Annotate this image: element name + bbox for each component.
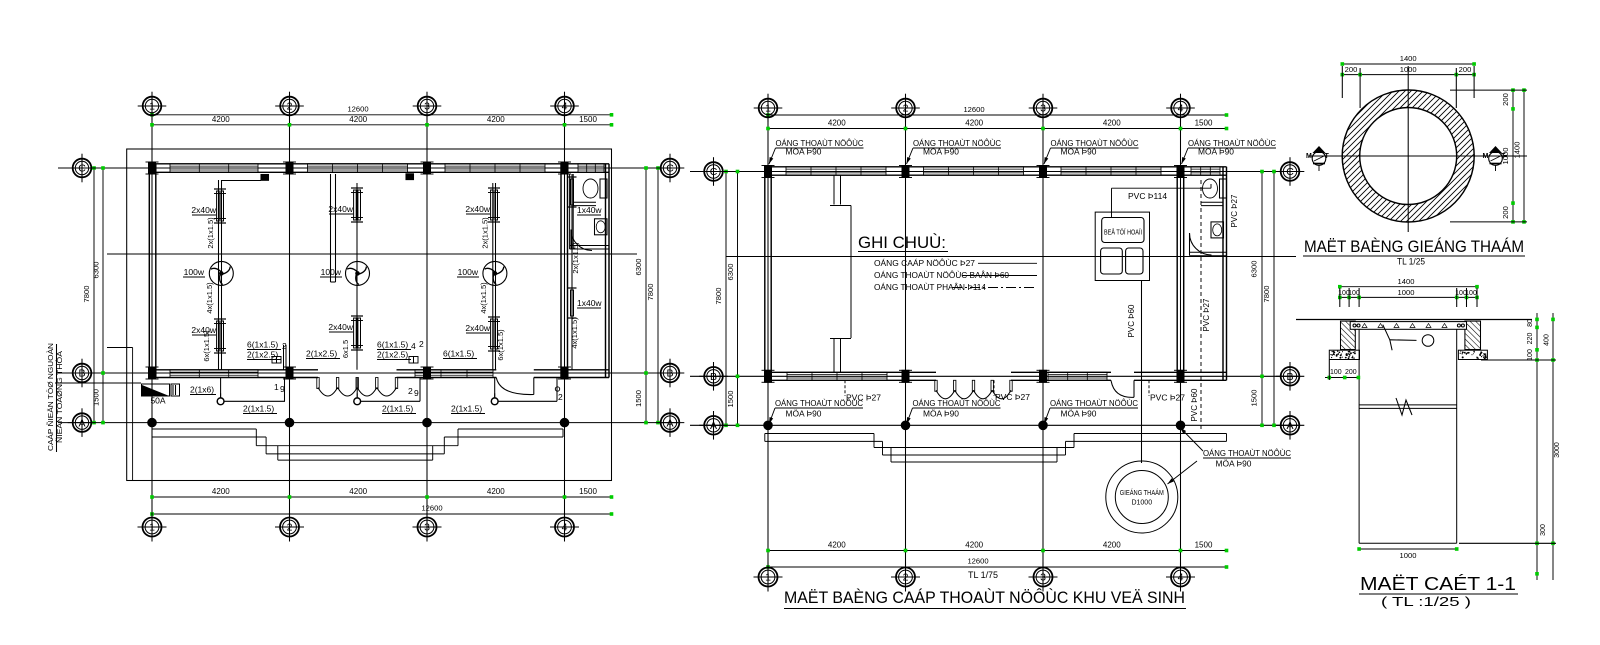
fan 100w room2 (346, 261, 370, 285)
middle toilet room walls (1201, 201, 1223, 203)
svg-text:7800: 7800 (82, 286, 91, 303)
svg-text:7800: 7800 (714, 288, 723, 305)
switch room3 (491, 398, 498, 405)
ring top dimension 1400 (1342, 63, 1474, 65)
toilet room walls left plan (569, 174, 571, 249)
svg-text:2(1x1.5): 2(1x1.5) (451, 404, 482, 414)
section dim extensions (1339, 288, 1341, 307)
svg-text:4200: 4200 (1103, 541, 1121, 550)
toilet wire riser (571, 174, 573, 370)
svg-text:200: 200 (1459, 65, 1472, 74)
svg-text:2x40w: 2x40w (465, 204, 490, 214)
junction box 2 (406, 174, 414, 180)
svg-text:7800: 7800 (646, 284, 655, 301)
grid bubble C left (73, 159, 92, 178)
top dimension line 12600 (152, 114, 612, 116)
svg-text:B: B (78, 368, 85, 380)
svg-text:2(1x2.5): 2(1x2.5) (377, 350, 408, 360)
svg-text:4200: 4200 (212, 115, 230, 124)
svg-text:B: B (666, 368, 673, 380)
svg-text:MAËT CAÉT 1-1: MAËT CAÉT 1-1 (1360, 574, 1516, 594)
conduit near room2 (330, 174, 332, 282)
middle grid bubble B right (1281, 367, 1300, 386)
soak well plan centerlines (1309, 155, 1503, 157)
ring top dimension 200 1000 200 (1342, 74, 1474, 76)
svg-text:1000: 1000 (1400, 65, 1417, 74)
middle bottom dimension 4200 (768, 550, 1227, 552)
middle grid bubble B left (704, 367, 723, 386)
middle door arc bay3 (1111, 380, 1134, 397)
svg-text:B: B (710, 371, 717, 383)
svg-text:2: 2 (287, 522, 293, 534)
lamp 2x40w room2 top (351, 187, 363, 189)
right dimension line 7800 (657, 168, 659, 423)
door leaf 4 (376, 378, 378, 389)
svg-text:C: C (666, 163, 674, 175)
right wall (605, 164, 607, 378)
svg-text:CAÁP ÑIEÄN TÖØ NGUOÀN: CAÁP ÑIEÄN TÖØ NGUOÀN (46, 343, 55, 451)
svg-text:2: 2 (419, 339, 424, 349)
middle grid bubble 4 bottom (1171, 568, 1190, 587)
grid bubble 2 top (280, 97, 299, 116)
svg-text:2x(1x1.5): 2x(1x1.5) (206, 217, 215, 249)
svg-text:1400: 1400 (1398, 277, 1415, 286)
section shaft bottom (1359, 542, 1457, 544)
middle grid line 4 vertical (1180, 115, 1182, 567)
toilet door arc left plan (571, 230, 592, 251)
middle left dimension 7800 (725, 172, 727, 426)
grid bubble 4 bottom (555, 518, 574, 537)
svg-text:100w: 100w (321, 267, 342, 277)
middle door leaf 4 (991, 380, 993, 391)
svg-text:2(1x1.5): 2(1x1.5) (243, 404, 274, 414)
middle bottom wall (765, 371, 936, 373)
waste pipe down to soak well (1141, 281, 1143, 464)
middle top dimension 4200 (768, 128, 1227, 130)
middle door leaf 2 (954, 380, 956, 391)
room3 wiring riser (492, 183, 494, 370)
middle bottom dimension 12600 (768, 566, 1227, 568)
middle rain downpipe dot grid 3 (1039, 421, 1048, 430)
column B3 bottom (424, 367, 431, 379)
middle grid bubble 1 top (759, 99, 778, 118)
svg-text:4: 4 (562, 522, 568, 534)
middle door leaf 1 (935, 380, 937, 391)
middle grid line 1 vertical (767, 115, 769, 567)
svg-text:1500: 1500 (634, 390, 643, 407)
left plan roof eave outline (127, 149, 612, 481)
middle grid bubble C right (1281, 162, 1300, 181)
svg-text:1x40w: 1x40w (577, 205, 602, 215)
svg-text:1: 1 (274, 382, 279, 392)
svg-text:2x40w: 2x40w (328, 204, 353, 214)
middle grid bubble 2 top (896, 99, 915, 118)
svg-text:C: C (710, 166, 718, 178)
toilet WC left plan (600, 179, 607, 198)
middle bottom wall window bay1 (787, 372, 887, 380)
svg-text:2: 2 (287, 101, 293, 113)
svg-text:4200: 4200 (965, 541, 983, 550)
svg-text:2x40w: 2x40w (465, 323, 490, 333)
middle toilet top window (1191, 167, 1220, 175)
svg-text:2(1x2.5): 2(1x2.5) (306, 349, 337, 359)
svg-text:7800: 7800 (1262, 286, 1271, 303)
top wall (149, 163, 609, 165)
svg-text:3000: 3000 (1554, 442, 1561, 458)
svg-text:80: 80 (1527, 319, 1534, 327)
fan 100w room1 (209, 261, 233, 285)
middle column A1 (765, 166, 772, 178)
svg-text:12600: 12600 (967, 557, 988, 566)
svg-text:3: 3 (1040, 103, 1046, 115)
bottom wall window bay3 (415, 370, 493, 378)
svg-text:1500: 1500 (579, 487, 597, 496)
svg-text:4: 4 (411, 341, 416, 351)
svg-text:OÁNG THOAÙT NÖÔÙC: OÁNG THOAÙT NÖÔÙC (1203, 449, 1291, 458)
soil pipe PVC114 leader (1111, 188, 1113, 217)
door leaf 5 (395, 378, 397, 389)
svg-text:PVC Þ27: PVC Þ27 (995, 392, 1030, 402)
svg-text:4200: 4200 (487, 115, 505, 124)
ring right extension lines (1450, 89, 1527, 91)
room2 wiring riser (356, 183, 358, 370)
room1 wiring riser (218, 180, 220, 370)
svg-text:PVC Þ60: PVC Þ60 (1127, 304, 1136, 337)
grid line C horizontal (58, 167, 678, 169)
svg-text:2x(1x1.5): 2x(1x1.5) (481, 217, 490, 249)
svg-text:6300: 6300 (1250, 261, 1259, 278)
soak well plan inner circle (1360, 108, 1457, 205)
column A2 top (286, 162, 293, 174)
svg-text:MÖA Þ90: MÖA Þ90 (1061, 148, 1098, 157)
svg-text:( TL :1/25 ): ( TL :1/25 ) (1381, 595, 1471, 609)
section right dimension stack outer (1552, 313, 1554, 580)
svg-text:MÖA Þ90: MÖA Þ90 (1198, 148, 1235, 157)
svg-text:2: 2 (903, 103, 909, 115)
svg-text:OÁNG THOAÙT NÖÔÙC: OÁNG THOAÙT NÖÔÙC (913, 399, 1001, 408)
section lifting hook (1383, 325, 1392, 351)
lamp 2x40w room1 bottom (214, 318, 226, 320)
svg-text:1: 1 (149, 101, 155, 113)
middle right dimension 6300 1500 (1261, 172, 1263, 426)
middle column A2 (902, 166, 909, 178)
svg-text:100w: 100w (458, 267, 479, 277)
svg-text:MÖA Þ90: MÖA Þ90 (923, 410, 960, 419)
grid line 4 vertical (564, 113, 566, 519)
svg-text:GIEÁNG THAÁM: GIEÁNG THAÁM (1120, 488, 1164, 497)
svg-text:1x40w: 1x40w (577, 298, 602, 308)
svg-text:2(1x6): 2(1x6) (190, 385, 214, 395)
section mid line (107, 253, 637, 255)
svg-text:2x40w: 2x40w (328, 322, 353, 332)
middle toilet door arc (1190, 233, 1212, 255)
svg-text:2: 2 (408, 386, 413, 396)
middle grid bubble 3 top (1034, 99, 1053, 118)
middle section mid line (726, 256, 1296, 258)
svg-text:300: 300 (1540, 524, 1547, 536)
svg-text:1000: 1000 (1400, 551, 1417, 560)
svg-text:PVC Þ114: PVC Þ114 (1128, 191, 1167, 201)
svg-text:100w: 100w (184, 267, 205, 277)
grid bubble 4 top (555, 97, 574, 116)
grid line 3 vertical (426, 113, 428, 519)
bottom wall (149, 369, 318, 371)
svg-text:A: A (78, 417, 85, 429)
section shaft walls (1358, 329, 1360, 543)
toilet lamp 1x40 top (568, 176, 577, 178)
svg-text:200: 200 (1501, 93, 1510, 106)
bottom dimension line 12600 (152, 513, 612, 515)
section footing left stippled (1329, 350, 1359, 359)
svg-text:A: A (666, 417, 673, 429)
svg-text:MÖA Þ90: MÖA Þ90 (1216, 460, 1253, 469)
middle grid bubble A right (1281, 416, 1300, 435)
svg-text:B: B (1286, 371, 1293, 383)
switch room2 (354, 398, 361, 405)
svg-text:4200: 4200 (349, 115, 367, 124)
ring right dimension 1400 (1523, 90, 1525, 222)
svg-text:6300: 6300 (634, 259, 643, 276)
grid bubble 1 top (143, 97, 162, 116)
svg-text:1500: 1500 (1195, 541, 1213, 550)
grid bubble B right (661, 364, 680, 383)
column B4 bottom (561, 367, 568, 379)
middle grid line C horizontal (690, 171, 1298, 173)
top dimension line 4200 segments (152, 124, 612, 126)
middle grid line 2 vertical (905, 115, 907, 567)
svg-text:M: M (1483, 153, 1489, 160)
middle grid line A horizontal (690, 424, 1298, 426)
middle rain downpipe dot grid 4 (1176, 421, 1185, 430)
svg-text:6(1x1.5): 6(1x1.5) (247, 340, 278, 350)
svg-text:A: A (710, 420, 717, 432)
svg-text:PVC Þ27: PVC Þ27 (1230, 194, 1239, 227)
toilet sink left plan (595, 219, 608, 235)
section cover slab (1350, 322, 1466, 330)
svg-text:4: 4 (1178, 103, 1184, 115)
rain downpipe dot grid 4 (560, 418, 569, 427)
svg-text:6x1.5: 6x1.5 (341, 340, 350, 358)
svg-text:200: 200 (1501, 206, 1510, 219)
svg-text:4x(1x1.5): 4x(1x1.5) (205, 282, 214, 314)
svg-text:MAËT BAÈNG CAÁP THOAÙT NÖÔÙC K: MAËT BAÈNG CAÁP THOAÙT NÖÔÙC KHU VEÄ SIN… (784, 588, 1185, 607)
svg-text:PVC Þ27: PVC Þ27 (1202, 298, 1211, 331)
svg-text:MÖA Þ90: MÖA Þ90 (786, 410, 823, 419)
svg-text:MAËT BAÈNG GIEÁNG THAÁM: MAËT BAÈNG GIEÁNG THAÁM (1304, 237, 1524, 256)
grid bubble A left (73, 413, 92, 432)
svg-text:6x(1x1.5): 6x(1x1.5) (202, 330, 211, 362)
svg-text:PVC Þ27: PVC Þ27 (846, 393, 881, 403)
middle interior partition (833, 175, 835, 204)
left dimension line 7800 (93, 168, 95, 423)
svg-text:12600: 12600 (963, 105, 984, 114)
middle column B4 (1177, 370, 1184, 382)
soak well GIENG THAM circle (1106, 461, 1178, 533)
section bottom dimension 1000 (1359, 548, 1457, 550)
svg-text:OÁNG THOAÙT PHAÂN Þ114: OÁNG THOAÙT PHAÂN Þ114 (874, 283, 987, 292)
lamp 2x40w room3 bottom (488, 316, 500, 318)
svg-text:12600: 12600 (421, 504, 442, 513)
svg-text:MÖA Þ90: MÖA Þ90 (786, 148, 823, 157)
middle grid line 3 vertical (1042, 115, 1044, 567)
svg-text:2x(1x1.5): 2x(1x1.5) (571, 242, 580, 274)
svg-text:OÁNG THOAÙT NÖÔÙC: OÁNG THOAÙT NÖÔÙC (1050, 399, 1138, 408)
middle rain downpipe dot grid 1 (764, 421, 773, 430)
svg-text:BEÅ TÖÏ HOAÏI: BEÅ TÖÏ HOAÏI (1104, 228, 1142, 237)
section break line (1359, 404, 1457, 406)
svg-text:6300: 6300 (726, 264, 735, 281)
conduit drop near grid2 (283, 345, 285, 370)
svg-text:100: 100 (1527, 349, 1534, 361)
middle door leaf 5 (1010, 380, 1012, 391)
middle door leaf 3 (972, 380, 974, 391)
svg-text:4: 4 (1178, 572, 1184, 584)
svg-text:4200: 4200 (965, 119, 983, 128)
svg-text:200: 200 (1345, 65, 1358, 74)
svg-text:A: A (1286, 420, 1293, 432)
left porch side line (132, 348, 134, 481)
middle left dimension 6300 1500 (737, 172, 739, 426)
middle column B3 (1040, 370, 1047, 382)
svg-text:50A: 50A (150, 396, 165, 406)
middle top wall windows (786, 167, 886, 175)
svg-text:2(1x2.5): 2(1x2.5) (247, 350, 278, 360)
middle column A4 (1177, 166, 1184, 178)
svg-text:4x(1x1.5): 4x(1x1.5) (570, 317, 579, 349)
svg-text:2x40w: 2x40w (191, 205, 216, 215)
middle left wall (764, 167, 766, 380)
grid line B horizontal (58, 372, 678, 374)
svg-text:4: 4 (562, 101, 568, 113)
middle rain downpipe dot grid 2 (901, 421, 910, 430)
middle bottom wall window bay3 (1048, 372, 1107, 380)
svg-text:6(1x1.5): 6(1x1.5) (443, 349, 474, 359)
svg-text:1: 1 (765, 103, 771, 115)
middle grid bubble 2 bottom (896, 568, 915, 587)
svg-text:6(1x1.5): 6(1x1.5) (377, 340, 408, 350)
svg-text:1: 1 (765, 572, 771, 584)
bottom wall window bay1 (170, 370, 258, 378)
section top dimension 1400 (1340, 286, 1477, 288)
toilet top window (578, 164, 604, 173)
grid line 2 vertical (289, 113, 291, 519)
column B2 bottom (286, 367, 293, 379)
svg-text:9: 9 (280, 384, 285, 394)
svg-text:4200: 4200 (828, 119, 846, 128)
middle steps (765, 433, 874, 435)
main breaker 50A (55, 382, 141, 384)
door leaf 3 (356, 378, 358, 389)
middle column A3 (1040, 166, 1047, 178)
svg-text:TL 1/75: TL 1/75 (968, 570, 998, 580)
right dimension line 6300 1500 (645, 168, 647, 423)
column A4 top (561, 162, 568, 174)
grid bubble 1 bottom (143, 518, 162, 537)
middle toilet sink (1211, 222, 1224, 238)
svg-text:12600: 12600 (347, 105, 368, 114)
section wall head right hatched (1465, 321, 1481, 349)
middle grid line B horizontal (690, 375, 1298, 377)
vertical pipe PVC27 dashed right (1200, 180, 1202, 430)
column B1 bottom (149, 367, 156, 379)
svg-text:MÖA Þ90: MÖA Þ90 (1061, 410, 1098, 419)
svg-text:4200: 4200 (828, 541, 846, 550)
svg-text:4200: 4200 (1103, 119, 1121, 128)
ring dim extension lines (1341, 66, 1343, 98)
svg-text:1500: 1500 (92, 389, 101, 406)
fan 100w room3 (483, 261, 507, 285)
svg-text:MÖA Þ90: MÖA Þ90 (923, 148, 960, 157)
section right dimension stack inner (1536, 313, 1538, 580)
grid bubble 2 bottom (280, 518, 299, 537)
middle grid bubble 1 bottom (759, 568, 778, 587)
grid bubble C right (661, 159, 680, 178)
middle grid bubble C left (704, 162, 723, 181)
middle column B1 (765, 370, 772, 382)
toilet lamp 1x40 bottom (568, 287, 577, 289)
svg-text:PVC Þ60: PVC Þ60 (1190, 388, 1199, 421)
section marker left M.C (1306, 146, 1330, 171)
porch steps (152, 428, 256, 430)
rain downpipe dot grid 2 (285, 418, 294, 427)
grid bubble A right (661, 413, 680, 432)
middle column B2 (902, 370, 909, 382)
svg-text:C: C (78, 163, 86, 175)
lamp 2x40w room3 top (488, 187, 500, 189)
middle grid bubble A left (704, 416, 723, 435)
svg-text:4200: 4200 (349, 487, 367, 496)
svg-text:2(1x1.5): 2(1x1.5) (382, 404, 413, 414)
door leaf 2 (336, 378, 338, 389)
section ground line (1296, 319, 1532, 321)
svg-text:3: 3 (1040, 572, 1046, 584)
grid bubble B left (73, 364, 92, 383)
svg-text:1000: 1000 (1398, 288, 1415, 297)
svg-text:C: C (1286, 166, 1294, 178)
svg-text:4200: 4200 (487, 487, 505, 496)
middle grid bubble 3 bottom (1034, 568, 1053, 587)
middle right wall (1222, 167, 1224, 380)
svg-text:D1000: D1000 (1131, 500, 1152, 507)
section right extensions (1481, 359, 1556, 361)
svg-text:PVC Þ27: PVC Þ27 (1150, 393, 1185, 403)
top wall windows (170, 164, 258, 173)
svg-text:220: 220 (1527, 333, 1534, 345)
rain downpipe dot grid 3 (423, 418, 432, 427)
junction box 1 (261, 175, 269, 181)
svg-text:4x(1x1.5): 4x(1x1.5) (479, 282, 488, 314)
grid line A horizontal (58, 422, 678, 424)
middle right dimension 7800 (1273, 172, 1275, 426)
svg-text:M: M (1306, 153, 1312, 160)
svg-text:3: 3 (424, 101, 430, 113)
grid bubble 3 top (418, 97, 437, 116)
svg-text:TL 1/25: TL 1/25 (1397, 257, 1425, 268)
switch room1 (217, 398, 224, 405)
svg-text:2: 2 (903, 572, 909, 584)
svg-text:GHI CHUÙ:: GHI CHUÙ: (858, 233, 946, 252)
svg-text:9: 9 (414, 388, 419, 398)
middle top dimension 12600 (768, 114, 1227, 116)
left dimension line 6300 1500 (102, 168, 104, 423)
svg-text:1500: 1500 (1250, 390, 1259, 407)
svg-text:OÁNG CAÁP NÖÔÙC Þ27: OÁNG CAÁP NÖÔÙC Þ27 (874, 259, 976, 268)
svg-text:200: 200 (1345, 369, 1357, 376)
lamp 2x40w room1 top (214, 188, 226, 190)
svg-text:3: 3 (424, 522, 430, 534)
rain downpipe dot grid 1 (148, 418, 157, 427)
grid line 1 vertical (151, 113, 153, 519)
